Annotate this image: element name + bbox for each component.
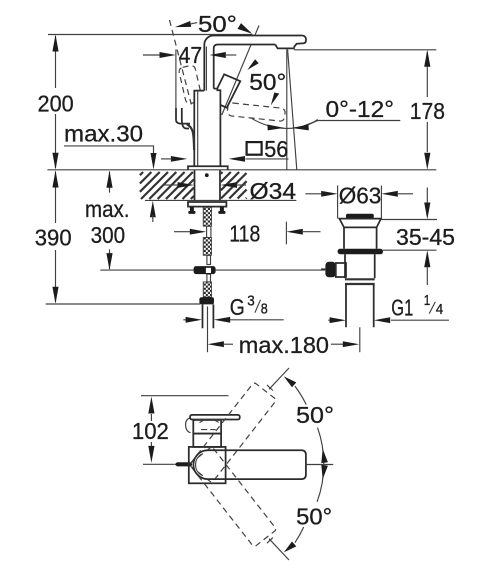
rod neck 2 (207, 255, 211, 264)
G1 1/4 right arrow (374, 317, 390, 323)
counter bottom line (145, 199, 297, 201)
lever axis line dashed (170, 20, 192, 105)
pull rod front view (176, 108, 190, 124)
dimension 47 arrow left-pointing (209, 52, 225, 58)
spout dashed position up (189, 382, 277, 483)
svg-text:118: 118 (229, 221, 260, 247)
dimension 118 left arrow (174, 231, 190, 233)
dimension diam34 arrow right (221, 182, 237, 188)
dimension 102 top reference (141, 395, 229, 397)
svg-text:300: 300 (91, 222, 126, 248)
dimension 102 arrow down (148, 446, 154, 463)
svg-text:50°: 50° (296, 402, 334, 428)
counter top line (47, 169, 436, 171)
svg-text:max.30: max.30 (64, 120, 143, 146)
dimension 102 arrow up (148, 397, 154, 414)
spout aerator (275, 45, 294, 49)
rod neck 1 (207, 226, 211, 237)
50deg top left leader (191, 23, 198, 24)
dimension 390 line (55, 172, 57, 303)
lever dashed left position (178, 65, 202, 105)
spout tip profile (294, 36, 306, 48)
spout riser right edge (214, 45, 276, 89)
svg-text:102: 102 (132, 418, 169, 444)
spout cap inner arc (196, 454, 202, 475)
threaded rod segment 3 (203, 282, 211, 297)
dimension 178 arrow down (424, 153, 430, 170)
35-45 arrow up (424, 250, 430, 267)
threaded rod segment 1 (203, 207, 211, 226)
svg-text:200: 200 (38, 91, 74, 117)
mounting bolt left (190, 207, 194, 212)
drain seal ring (338, 249, 383, 254)
pop-up rod tee (194, 266, 216, 274)
faucet base plate (188, 166, 228, 170)
swing angle ray top tick (267, 385, 273, 391)
drain plug top (346, 214, 374, 219)
swing arc mid arrow down (321, 465, 328, 479)
50deg top left arrow (175, 21, 191, 27)
swing arc mid arrow up (321, 449, 328, 463)
dimension 47 line right (225, 54, 236, 56)
svg-text:max.180: max.180 (239, 332, 329, 358)
0-12deg leader underline (303, 121, 400, 127)
drain tailpipe (346, 284, 374, 327)
lever handle solid (211, 74, 240, 107)
dimension 118 right arrow (286, 229, 302, 235)
max.30 arrow down to counter top (151, 153, 157, 170)
supply nut (199, 297, 214, 304)
water stream line 0deg (286, 49, 288, 170)
dimension 118 extension line (285, 222, 287, 245)
diam63 left arrow (305, 193, 322, 195)
counter hatch right (221, 172, 247, 199)
swing arc end arrow bottom (284, 542, 297, 553)
dimension diam63 extension lines (338, 186, 382, 219)
G3/8 right arrow (214, 317, 230, 323)
mounting flange under counter (188, 202, 226, 207)
spout white body fill (204, 36, 306, 91)
svg-text:0°-12°: 0°-12° (326, 96, 395, 122)
svg-text:3: 3 (247, 293, 255, 309)
max180 left arrow (208, 341, 224, 347)
dimension 47 arrow right-pointing (160, 52, 176, 58)
dimension 102 line (150, 414, 152, 446)
G1 1/4 left arrow (328, 319, 331, 321)
side view pull rod pin (175, 462, 192, 466)
G1 1/4 underline (391, 319, 449, 321)
dimension 35-45 top reference (382, 219, 438, 221)
0-12deg arrow right-pointing (267, 125, 284, 131)
svg-text:4: 4 (436, 302, 444, 318)
faucet body white fill (194, 91, 220, 167)
shank screw dot (205, 173, 209, 177)
swing angle ray bottom (269, 539, 289, 560)
drain knob socket (336, 263, 346, 277)
dimension max.300 arrow up (106, 171, 112, 188)
dimension 178 reference line (294, 49, 436, 51)
side view base plate (189, 447, 226, 483)
square56 underline (246, 158, 289, 160)
svg-text:47: 47 (179, 42, 203, 68)
max180 extension line left (207, 307, 209, 353)
water stream line 12deg (288, 49, 297, 170)
mounting shank (195, 170, 221, 200)
svg-text:8: 8 (261, 302, 268, 318)
max.30 lower arrow tail (152, 215, 154, 222)
spout centre line (306, 464, 333, 466)
max.30 leader underline (64, 146, 154, 153)
dimension 200 line (55, 36, 57, 168)
drain knob rod (321, 268, 325, 270)
side view cartridge dashes (201, 429, 216, 431)
50deg middle arrow up-left to lever (247, 59, 258, 70)
dimension 178 line (426, 52, 428, 152)
svg-text:Ø34: Ø34 (250, 178, 297, 204)
lever axis line solid (222, 26, 259, 116)
dimension 35-45 line (426, 188, 428, 286)
dimension 47 line left (143, 54, 160, 56)
svg-text:390: 390 (35, 225, 72, 251)
50deg top right arrow (238, 23, 253, 34)
G3/8 underline (229, 319, 283, 321)
0-12deg arc (252, 118, 318, 128)
faucet body (194, 91, 220, 167)
svg-text:G1: G1 (391, 294, 413, 320)
svg-text:50°: 50° (249, 69, 286, 95)
svg-text:G: G (230, 294, 245, 320)
dimension 178 arrow up (424, 50, 430, 67)
label square56 symbol (247, 142, 262, 155)
svg-text:50°: 50° (296, 504, 332, 530)
swing angle ray bottom tick (267, 538, 273, 544)
side view body (193, 434, 221, 447)
0-12deg arrow left-pointing (292, 125, 309, 131)
threaded rod segment 2 (203, 238, 211, 256)
pull rod extension line (175, 49, 177, 108)
dimension max.300 arrow down (106, 253, 112, 270)
svg-text:max.: max. (85, 196, 130, 222)
svg-text:1: 1 (424, 293, 431, 309)
dimension 390 bottom reference line (46, 303, 201, 305)
dimension 200 arrow up (52, 35, 58, 52)
counter hatch left (140, 172, 194, 199)
svg-text:50°: 50° (198, 11, 237, 37)
mounting bolt right (220, 207, 224, 212)
max.30 arrow up to counter bottom (150, 201, 156, 218)
side view pull rod curl (186, 418, 191, 433)
diam63 right arrow (381, 191, 397, 197)
pop-up rod horizontal right (216, 269, 322, 271)
G3/8 left arrow (183, 319, 186, 321)
pull rod hook thick end (187, 124, 194, 150)
square56 right arrow tail (161, 158, 172, 160)
dimension max.300 line (109, 172, 111, 270)
dimension 390 arrow up (52, 171, 58, 188)
dimension diam34 arrow left (163, 184, 178, 186)
spout riser inner faint line (205, 47, 207, 91)
drain centreline (359, 327, 361, 352)
dimension 390 arrow down (52, 287, 58, 304)
lever dashed right position (227, 103, 286, 122)
drain flange (339, 219, 381, 228)
square56 arrow right-pointing (171, 156, 187, 162)
side view spout solid (193, 450, 306, 479)
50deg middle arrow down (271, 93, 280, 106)
side view lever plate (190, 415, 240, 420)
swing arc end arrow top (284, 376, 297, 387)
side view cartridge (193, 420, 221, 434)
pop-up rod horizontal left (100, 269, 196, 271)
supply pipe (203, 304, 214, 328)
drain upper body (344, 227, 377, 248)
drain coupling lines (345, 278, 375, 280)
spout riser left edge (204, 36, 302, 91)
svg-text:56: 56 (264, 136, 288, 162)
dimension 35-45 bottom reference (383, 249, 437, 251)
drain lower body (345, 254, 375, 278)
35-45 arrow down (424, 203, 430, 220)
dimension 200 top reference line (48, 34, 253, 36)
square56 leader arrow left-pointing (229, 156, 245, 162)
faucet body inner line (197, 91, 199, 166)
svg-text:Ø63: Ø63 (339, 183, 382, 209)
spout dashed position down (189, 447, 277, 548)
dimension 200 arrow down (52, 153, 58, 170)
faucet body pivot step (214, 89, 221, 93)
drain knob (325, 262, 335, 278)
side view cartridge dome (200, 420, 219, 423)
swing angle ray top (269, 368, 289, 389)
svg-text:178: 178 (410, 98, 445, 124)
swing arc (295, 386, 306, 405)
side view lever plate accent (195, 419, 222, 421)
rod neck 3 (207, 274, 211, 282)
svg-text:35-45: 35-45 (396, 224, 455, 250)
dimension 102 bottom reference (143, 463, 175, 465)
max180 right arrow (331, 343, 343, 345)
